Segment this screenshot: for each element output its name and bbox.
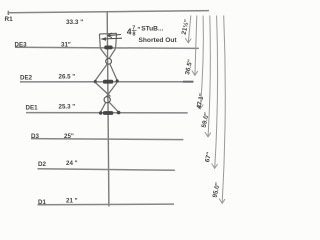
director D1 bbox=[38, 203, 175, 206]
svg-text:D3: D3 bbox=[31, 133, 39, 140]
dimension line 4 (to D3) bbox=[205, 16, 211, 137]
stub box (shorted stub) bbox=[99, 33, 117, 47]
driven element DE1 bbox=[26, 112, 188, 114]
svg-text:DE2: DE2 bbox=[20, 75, 33, 82]
reflector element R1 bbox=[8, 11, 209, 15]
boom clamp at DE1 bbox=[103, 111, 113, 115]
director D2 bbox=[38, 169, 175, 171]
svg-text:31": 31" bbox=[61, 42, 71, 49]
phasing line V below DE3 bbox=[100, 48, 115, 58]
svg-text:STuB...: STuB... bbox=[141, 26, 163, 33]
solder dot DE2 left bbox=[94, 80, 97, 83]
svg-text:8: 8 bbox=[133, 32, 136, 38]
crossover loop 2 bbox=[104, 97, 110, 103]
solder dot DE1 left bbox=[99, 111, 103, 115]
driven element DE3 bbox=[15, 47, 199, 48]
solder dot DE2 right bbox=[116, 79, 119, 82]
svg-text:": " bbox=[137, 26, 140, 33]
stub annotation arrow (upper, open head) bbox=[108, 33, 121, 38]
dimension line 3 (to DE1) bbox=[197, 16, 203, 109]
svg-text:4: 4 bbox=[127, 27, 132, 37]
svg-text:26.5 ": 26.5 " bbox=[59, 74, 76, 81]
phasing lines loop2 to DE1 bbox=[101, 102, 118, 112]
svg-text:33.3 ": 33.3 " bbox=[66, 19, 83, 26]
svg-text:DE1: DE1 bbox=[26, 105, 39, 112]
phasing lines loop1 to DE2 bbox=[95, 64, 117, 81]
dimension line 1 (to DE3) bbox=[185, 16, 191, 43]
svg-text:D2: D2 bbox=[38, 161, 46, 168]
svg-text:25": 25" bbox=[64, 133, 74, 140]
svg-text:21 ": 21 " bbox=[66, 198, 78, 205]
solder dot DE1 right bbox=[117, 111, 121, 115]
svg-text:DE3: DE3 bbox=[15, 42, 28, 49]
boom clamp at DE2 bbox=[103, 80, 113, 84]
crossover loop 1 bbox=[106, 58, 112, 64]
phasing X below DE2 bbox=[95, 83, 117, 97]
boom clamp at DE3 bbox=[104, 46, 112, 50]
svg-text:R1: R1 bbox=[5, 16, 14, 23]
svg-text:24 ": 24 " bbox=[66, 160, 78, 167]
DE2 right end dark segment bbox=[183, 81, 193, 83]
svg-text:25.3 ": 25.3 " bbox=[59, 104, 76, 111]
director D3 bbox=[31, 139, 183, 140]
dimension line 6 (to D1) bbox=[219, 16, 225, 204]
boom bbox=[107, 12, 109, 207]
dimension line 5 (to D2) bbox=[212, 16, 218, 169]
svg-text:D1: D1 bbox=[38, 199, 46, 206]
driven element DE2 bbox=[20, 81, 193, 83]
svg-text:Shorted Out: Shorted Out bbox=[139, 37, 178, 44]
stub annotation arrow (lower, filled head) bbox=[100, 37, 122, 41]
dimension line 2 (to DE2) bbox=[192, 16, 198, 76]
